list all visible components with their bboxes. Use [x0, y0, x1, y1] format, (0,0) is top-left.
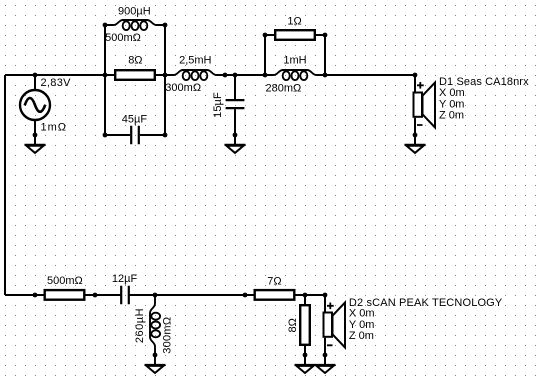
inductor 900µH (top of parallel block) [105, 20, 165, 30]
wire: bottom bus from rail to driver D2 [5, 294, 325, 296]
junction dot after 7Ω [303, 293, 308, 298]
capacitor 12µF (bottom branch) [121, 286, 129, 305]
resistor 8Ω (shunt, vertical) [300, 295, 310, 365]
svg-text:500mΩ: 500mΩ [47, 275, 83, 287]
junction dot at source top [33, 73, 38, 78]
svg-text:260µH: 260µH [134, 308, 146, 343]
junction dot: parallel block right on main bus [163, 73, 168, 78]
junction dot at 15µF top [233, 73, 238, 78]
resistor 500mΩ (bottom branch) [45, 290, 85, 300]
svg-text:300mΩ: 300mΩ [165, 82, 201, 94]
junction dot: 45µF left terminal [103, 133, 108, 138]
capacitor 15µF (shunt to ground) [226, 75, 245, 145]
ground below 15µF [225, 145, 246, 153]
driver D1 Seas CA18nrx [414, 75, 436, 145]
resistor 7Ω (bottom branch) [255, 290, 295, 300]
junction dot: 1Ω left terminal [263, 33, 268, 38]
svg-text:8Ω: 8Ω [287, 318, 299, 332]
terminal dot above ground (15µF branch) [233, 133, 238, 138]
junction dot: 45µF right terminal [163, 133, 168, 138]
ground below 260µH [145, 365, 166, 373]
svg-text:2,83V: 2,83V [41, 77, 72, 89]
resistor 8Ω (middle of parallel block) [115, 70, 155, 80]
voltage source V1 sine symbol [25, 98, 46, 112]
svg-text:Z 0m: Z 0m [439, 110, 464, 122]
capacitor 45µF (bottom of parallel block) [105, 126, 165, 145]
junction dot at 260µH top [153, 293, 158, 298]
junction dot at D2 top [323, 293, 328, 298]
wire: parallel block right vertical [164, 25, 166, 135]
svg-text:7Ω: 7Ω [267, 275, 281, 287]
svg-text:1Ω: 1Ω [287, 15, 301, 27]
wire: 1Ω branch horizontal [265, 34, 325, 36]
inductor 1mH (series, main bus) [265, 70, 325, 80]
terminal dot at D1 bottom [413, 133, 418, 138]
wire: 1Ω/1mH block right vertical [324, 35, 326, 75]
svg-text:D1 Seas CA18nrx: D1 Seas CA18nrx [439, 76, 529, 88]
svg-text:1mΩ: 1mΩ [41, 122, 68, 134]
ground below D2 [315, 365, 336, 373]
inductor 260µH (shunt, vertical) [150, 295, 160, 365]
svg-text:45µF: 45µF [122, 114, 148, 126]
terminal dot above ground (260µH) [153, 353, 158, 358]
junction dot: 1mH left on main bus [263, 73, 268, 78]
terminal dot below 8Ω [303, 353, 308, 358]
wire: parallel block left vertical [104, 25, 106, 135]
svg-text:Y 0m: Y 0m [439, 98, 464, 110]
svg-text:15µF: 15µF [212, 92, 224, 118]
ground below source [25, 145, 46, 153]
svg-text:X 0m: X 0m [349, 308, 375, 320]
junction dot: parallel block left on main bus [103, 73, 108, 78]
wire: 1Ω/1mH block left vertical [264, 35, 266, 75]
svg-text:300mΩ: 300mΩ [162, 317, 174, 354]
driver D2 sCAN PEAK TECNOLOGY [324, 295, 346, 365]
svg-text:900µH: 900µH [118, 6, 151, 18]
svg-text:12µF: 12µF [112, 273, 138, 285]
voltage source V1 stub top [34, 75, 36, 90]
terminal dot left of 7Ω [243, 293, 248, 298]
voltage source V1 stub bottom to ground [34, 120, 36, 145]
terminal dot right of 2,5mH [223, 73, 228, 78]
svg-text:1mH: 1mH [283, 55, 306, 67]
junction dot: 1Ω right terminal [323, 33, 328, 38]
wire: left vertical rail [4, 75, 6, 295]
svg-text:Z 0m: Z 0m [349, 330, 374, 342]
junction dot at D1 top [413, 73, 418, 78]
resistor 1Ω [275, 30, 315, 40]
terminal dot: 500mΩ left [33, 293, 38, 298]
svg-text:8Ω: 8Ω [128, 55, 142, 67]
svg-text:Y 0m: Y 0m [349, 319, 374, 331]
svg-text:2,5mH: 2,5mH [179, 55, 211, 67]
voltage source V1 circle [20, 90, 50, 120]
svg-text:500mΩ: 500mΩ [105, 32, 141, 44]
terminal dot at source bottom [33, 133, 38, 138]
terminal dot at D2 bottom [323, 353, 328, 358]
ground below 8Ω [295, 365, 316, 373]
svg-text:280mΩ: 280mΩ [266, 83, 302, 95]
svg-text:X 0m: X 0m [439, 87, 465, 99]
inductor 2,5mH (series, main bus) [165, 70, 225, 80]
wire: top main bus from left rail to driver D1 [5, 74, 415, 76]
ground below D1 [405, 145, 426, 153]
junction dot: 900µH right terminal [163, 23, 168, 28]
terminal dot: 500mΩ right [93, 293, 98, 298]
junction dot: 900µH left terminal [103, 23, 108, 28]
junction dot: 1mH right on main bus [323, 73, 328, 78]
